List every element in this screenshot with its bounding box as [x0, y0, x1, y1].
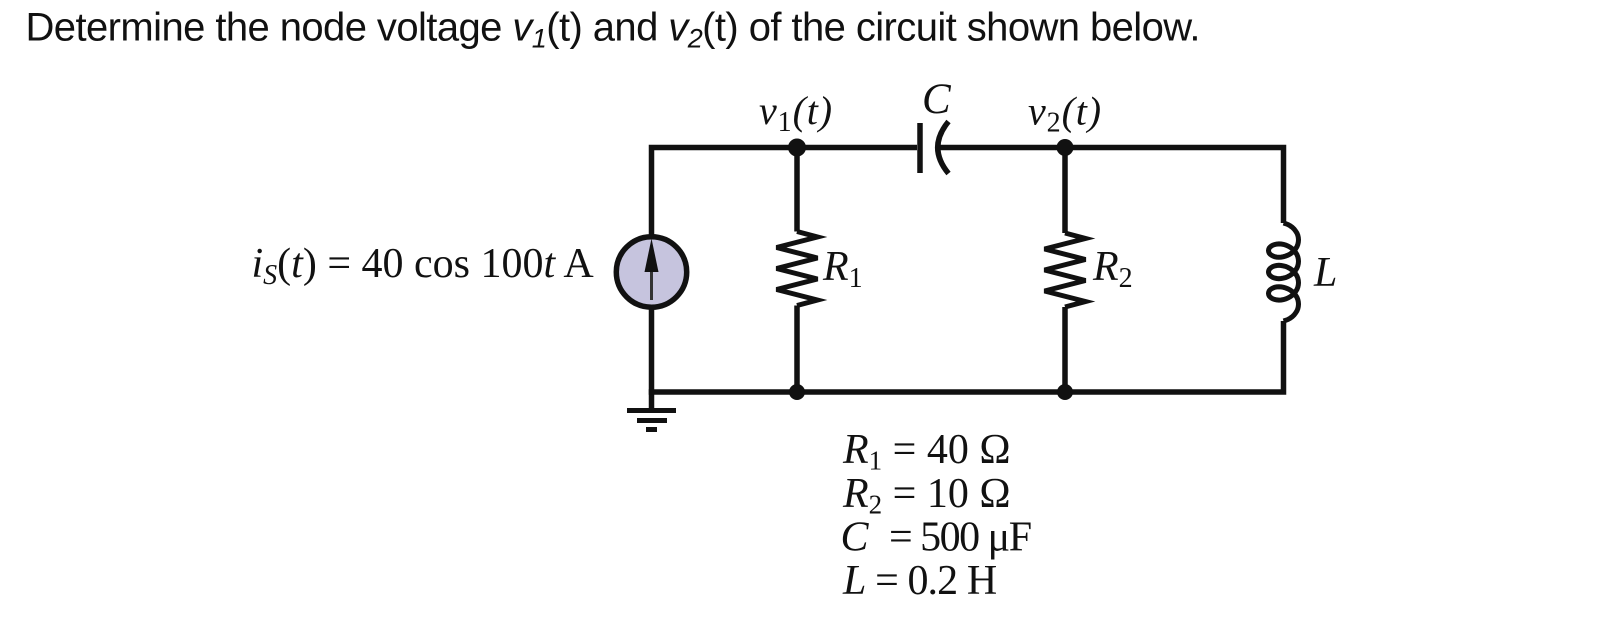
svg-text:R2: R2: [1092, 244, 1133, 294]
svg-text:C: C: [922, 76, 952, 123]
svg-text:Determine the node voltage v1(: Determine the node voltage v1(t) and v2(…: [26, 6, 1201, 54]
svg-text:C= 500 μF: C= 500 μF: [841, 515, 1031, 561]
svg-text:L = 0.2 H: L = 0.2 H: [842, 558, 997, 604]
svg-text:R2 = 10 Ω: R2 = 10 Ω: [842, 471, 1011, 520]
svg-text:v1(t): v1(t): [759, 88, 833, 138]
svg-text:R1 = 40 Ω: R1 = 40 Ω: [842, 427, 1011, 476]
svg-text:R1: R1: [822, 244, 863, 294]
svg-text:L: L: [1313, 250, 1337, 296]
svg-text:v2(t): v2(t): [1028, 89, 1102, 139]
svg-text:iS(t) = 40 cos 100t A: iS(t) = 40 cos 100t A: [252, 241, 595, 291]
